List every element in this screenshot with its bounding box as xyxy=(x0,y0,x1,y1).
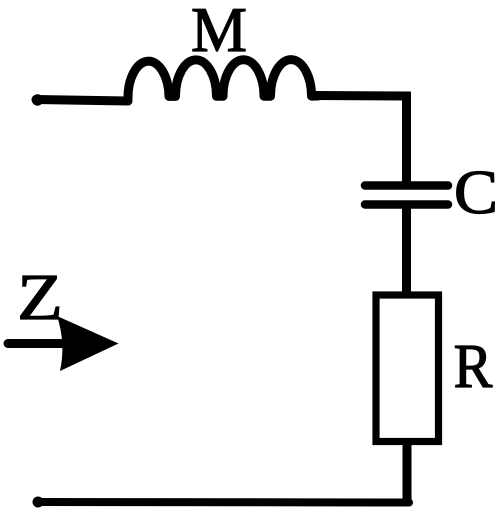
wire bottom return lead xyxy=(37,498,409,507)
label R xyxy=(454,331,493,400)
node bottom-left terminal blob xyxy=(33,497,44,508)
wire top-left input lead xyxy=(36,100,128,102)
capacitor C bottom plate xyxy=(365,200,448,209)
label M xyxy=(191,0,247,65)
wire from inductor to top-right corner xyxy=(316,96,407,184)
svg-text:M: M xyxy=(191,0,247,65)
capacitor C top plate xyxy=(365,181,448,190)
wire capacitor to resistor xyxy=(402,206,411,296)
svg-text:R: R xyxy=(454,331,493,400)
wire arrow shaft for Z xyxy=(8,339,66,348)
wire resistor to bottom xyxy=(403,440,412,502)
label C xyxy=(454,158,498,227)
inductor M xyxy=(128,60,318,99)
node top-left terminal blob xyxy=(32,94,43,105)
label Z xyxy=(17,261,63,334)
svg-text:Z: Z xyxy=(17,261,63,334)
node arrowhead for Z direction xyxy=(57,316,119,371)
svg-text:C: C xyxy=(454,158,498,227)
resistor R body xyxy=(376,295,439,442)
